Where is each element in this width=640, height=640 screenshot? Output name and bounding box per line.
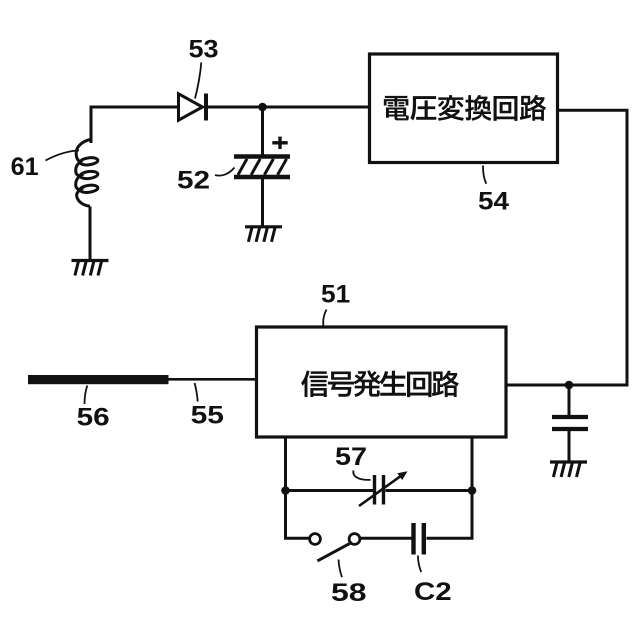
wire cap52 to ground (261, 177, 264, 226)
svg-text:58: 58 (331, 579, 367, 607)
capacitor C2 (414, 523, 424, 555)
electrode bar 56 (28, 375, 169, 384)
wire switch to C2 (360, 537, 412, 540)
block 電圧変換回路 (voltage conversion circuit) box 54 (370, 54, 558, 163)
svg-text:52: 52 (177, 167, 210, 195)
capacitor C 52 (electrolytic) (234, 157, 290, 178)
node output right (565, 381, 574, 390)
svg-text:53: 53 (189, 35, 219, 63)
wire node to right cap (568, 385, 571, 416)
label 51 leader (323, 310, 326, 326)
wire node to cap52 (261, 107, 264, 155)
wire left branch below box51 (286, 439, 310, 539)
diode D 53 (179, 94, 207, 121)
wire coil to ground (89, 207, 92, 261)
label 58 leader (339, 560, 343, 578)
block 信号発生回路 (signal generating circuit) box 51 (257, 327, 507, 437)
ground under coil (72, 261, 109, 276)
switch SW 58 (310, 534, 360, 561)
label 61 leader (46, 150, 80, 160)
capacitor right (decoupling) (552, 417, 588, 429)
text 信号発生回路 (301, 370, 459, 397)
wire row1 left segment (286, 489, 374, 492)
wire top-left: coil top to diode (91, 107, 179, 143)
svg-text:57: 57 (335, 443, 367, 471)
label 53 leader (195, 63, 201, 99)
label 54 leader (483, 166, 486, 184)
ground under cap52 (245, 227, 282, 242)
label 55 leader (195, 383, 198, 402)
svg-text:C2: C2 (414, 578, 452, 606)
inductor L 61 (76, 140, 99, 207)
node junction top (258, 103, 267, 112)
ground right (550, 462, 587, 477)
label 52 leader (215, 168, 235, 176)
wire diode to box54 (208, 106, 369, 109)
wire 55 (168, 378, 256, 381)
label 57 leader (353, 471, 370, 480)
node row1 left (281, 486, 290, 495)
label C2 leader (418, 556, 421, 573)
wire right branch below box51 (427, 439, 473, 539)
svg-text:55: 55 (191, 402, 224, 430)
text 電圧変換回路 (384, 95, 546, 121)
arrowhead of 57 (397, 471, 407, 480)
node row1 right (468, 486, 477, 495)
svg-text:51: 51 (321, 281, 350, 309)
plus sign of cap52 (272, 137, 287, 149)
wire box54 right to right rail down to output node (508, 110, 628, 385)
svg-text:61: 61 (11, 153, 39, 181)
svg-text:56: 56 (77, 404, 110, 432)
svg-text:54: 54 (478, 188, 509, 216)
wire row1 right segment (386, 489, 473, 492)
variable capacitor 57 (359, 475, 401, 506)
label 56 leader (85, 386, 88, 405)
